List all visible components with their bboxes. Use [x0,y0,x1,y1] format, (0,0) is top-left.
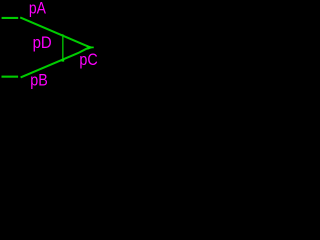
port pA stub [2,17,19,19]
port pB stub [2,76,19,78]
svg-text:pC: pC [79,51,97,69]
wire pB to node pD [21,48,89,78]
svg-text:pD: pD [33,34,52,52]
arrow to port pC [88,45,94,50]
svg-text:pB: pB [30,72,48,90]
wire pA to node pD [20,17,88,46]
wire arrow nub [90,46,94,48]
wire node pD vertical link [62,34,63,60]
junction node pD [62,59,65,62]
svg-text:pA: pA [29,0,46,17]
